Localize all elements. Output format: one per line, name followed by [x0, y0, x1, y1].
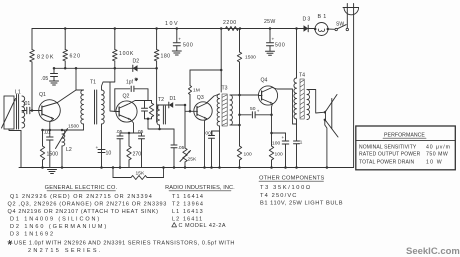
wire: Q4 collector to T4 — [272, 88, 297, 125]
svg-text:D2: D2 — [133, 59, 140, 65]
resistor 270 — [128, 133, 130, 146]
wire: T3 left bottom to .001 — [212, 126, 220, 131]
svg-text:C MODEL 42-2A: C MODEL 42-2A — [179, 223, 227, 229]
svg-text:.01: .01 — [23, 101, 30, 107]
wire: Q2 emitter down — [131, 120, 134, 134]
svg-text:1M: 1M — [193, 87, 200, 93]
wire: speaker return to rail — [325, 120, 327, 168]
svg-text:T4: T4 — [299, 73, 305, 79]
svg-text:180: 180 — [161, 54, 171, 60]
inductor L2 variable — [62, 130, 65, 146]
lamp B1 ballast bulb — [315, 23, 328, 36]
svg-text:T3 35K/100Ω: T3 35K/100Ω — [260, 185, 312, 191]
wire: top 10V supply rail — [32, 28, 297, 30]
wire: T1 primary bottom — [83, 124, 85, 130]
svg-text:PERFORMANCE: PERFORMANCE — [384, 133, 425, 139]
svg-text:T3: T3 — [222, 86, 228, 92]
svg-text:1500: 1500 — [47, 152, 59, 158]
L1 core — [16, 95, 18, 130]
svg-text:T4 250/VC: T4 250/VC — [260, 193, 298, 199]
svg-text:100: 100 — [244, 152, 252, 158]
svg-text:Q1 2N2926 (RED) OR 2N2715 OR: Q1 2N2926 (RED) OR 2N2715 OR 2N3394 — [10, 194, 153, 200]
svg-text:T2: T2 — [158, 97, 164, 103]
capacitor .1 — [296, 119, 298, 124]
svg-text:.1: .1 — [298, 140, 302, 146]
ground below first 500uF — [172, 50, 181, 52]
svg-text:500: 500 — [275, 43, 285, 49]
svg-text:500: 500 — [183, 43, 193, 49]
wire: 1M top to T3 supply — [190, 69, 221, 71]
wire: T1 secondary top jog — [102, 82, 111, 90]
svg-text:D3 1N1692: D3 1N1692 — [10, 231, 55, 237]
svg-text:Q4: Q4 — [261, 78, 268, 84]
wire: bias divider down with 100 ohm — [239, 95, 241, 146]
resistor Q2 load — [151, 101, 153, 104]
svg-text:GENERAL ELECTRIC CO.: GENERAL ELECTRIC CO. — [45, 185, 118, 191]
svg-text:620: 620 — [70, 54, 81, 60]
svg-text:SeekIC.com: SeekIC.com — [406, 246, 460, 257]
svg-text:100K: 100K — [119, 51, 134, 57]
svg-text:Q1: Q1 — [39, 92, 46, 98]
svg-text:Q2 ,Q3, 2N2926 (ORANGE) OR 2N2: Q2 ,Q3, 2N2926 (ORANGE) OR 2N2716 OR 2N3… — [8, 202, 167, 208]
wire: Q3 collector to T3 — [206, 94, 220, 104]
svg-text:T2 13964: T2 13964 — [172, 202, 204, 208]
svg-text:D3: D3 — [303, 17, 312, 23]
capacitor Q2 load — [144, 101, 146, 108]
wire: T4 secondary to speaker — [307, 90, 324, 114]
svg-text:OTHER COMPONENTS: OTHER COMPONENTS — [259, 175, 324, 181]
svg-text:D1: D1 — [170, 96, 177, 102]
svg-text:T1: T1 — [90, 80, 96, 86]
performance table — [356, 126, 456, 170]
svg-text:Q2: Q2 — [123, 94, 130, 100]
svg-text:1500: 1500 — [68, 123, 79, 129]
resistor 100 emitter — [271, 133, 273, 146]
wire: Q3 emitter down — [205, 119, 207, 168]
svg-text:+: + — [96, 146, 99, 151]
resistor 1M — [189, 70, 191, 86]
svg-text:T1 16414: T1 16414 — [172, 194, 204, 200]
diode D2 — [133, 65, 138, 71]
svg-text:L2: L2 — [66, 147, 72, 153]
T2 tuning arrow — [157, 105, 159, 112]
ground below second 500uF — [266, 50, 275, 52]
svg-text:RATED OUTPUT POWER: RATED OUTPUT POWER — [359, 152, 421, 158]
svg-text:10V: 10V — [165, 21, 179, 27]
capacitor .05 volume coupling — [173, 129, 175, 144]
svg-text:40 μv/m: 40 μv/m — [426, 144, 451, 150]
svg-text:.05: .05 — [178, 145, 185, 151]
wire: AGC line to Q1 collector and T1 — [76, 68, 84, 90]
wire: Q2 emitter node — [120, 132, 142, 134]
svg-text:100: 100 — [275, 152, 283, 158]
svg-text:+: + — [257, 108, 260, 113]
wire: Q2 collector node — [130, 101, 152, 104]
svg-text:.05: .05 — [137, 129, 144, 135]
svg-text:2N2715 SERIES.: 2N2715 SERIES. — [28, 248, 103, 254]
svg-text:.05: .05 — [116, 129, 123, 135]
potentiometer 25K volume — [184, 105, 186, 148]
wire: 100K to T1 secondary — [110, 61, 116, 112]
wire: T3 secondary to Q4 base line — [230, 94, 240, 96]
resistor 620 — [64, 29, 66, 50]
resistor 180 — [156, 29, 158, 50]
svg-text:25W: 25W — [264, 19, 276, 25]
wire: T1 secondary bottom with 10uF — [101, 124, 103, 168]
svg-text:2200: 2200 — [223, 20, 237, 26]
speaker — [324, 111, 326, 113]
svg-text:USE 1.0pf WITH 2N2926 AND 2N33: USE 1.0pf WITH 2N2926 AND 2N3391 SERIES … — [14, 241, 235, 247]
resistor 820K — [31, 29, 33, 50]
svg-text:L1: L1 — [15, 90, 21, 96]
svg-text:1500: 1500 — [245, 55, 256, 61]
switch SW — [328, 28, 335, 30]
capacitor 500uF first filter — [176, 29, 178, 43]
resistor 1500 driver feed — [239, 29, 241, 53]
L1 secondary coil — [22, 96, 25, 128]
wire: plug neutral down right side to ground rail — [353, 4, 355, 168]
resistor 100K — [114, 29, 116, 50]
svg-text:Q4 2N2196 OR 2N2107 (ATTACH TO: Q4 2N2196 OR 2N2107 (ATTACH TO HEAT SINK… — [8, 209, 159, 215]
wire: L1 bottom to ground rail — [9, 129, 21, 131]
resistor 1500 Q1 emitter — [42, 130, 44, 146]
svg-text:100: 100 — [272, 141, 280, 147]
wire: load network return — [148, 119, 174, 129]
capacitor 100uF emitter bypass — [272, 132, 286, 134]
svg-text:820K: 820K — [37, 55, 55, 61]
svg-text:D2 1N60 (GERMANIUM): D2 1N60 (GERMANIUM) — [10, 224, 108, 230]
diode D1 detector — [160, 104, 169, 106]
resistor 15K feedback below rail — [112, 168, 114, 178]
svg-text:25K: 25K — [188, 157, 197, 163]
resistor 2200 on supply rail — [226, 27, 239, 31]
wire: bottom common ground rail — [19, 167, 354, 169]
AC plug — [343, 7, 359, 9]
svg-text:+: + — [178, 38, 181, 43]
svg-text:L2 16411: L2 16411 — [172, 217, 203, 223]
svg-text:RADIO INDUSTRIES, INC.: RADIO INDUSTRIES, INC. — [165, 185, 235, 191]
wire: Q1 collector diagonal — [58, 90, 77, 103]
wire: Q1 emitter node — [43, 129, 84, 131]
svg-text:B1: B1 — [318, 14, 329, 20]
svg-text:+: + — [282, 135, 285, 140]
svg-text:.05: .05 — [41, 76, 48, 82]
svg-text:NOMINAL SENSITIVITY: NOMINAL SENSITIVITY — [359, 144, 417, 150]
svg-text:1pf: 1pf — [126, 80, 134, 86]
capacitor .05 AGC bypass — [53, 68, 55, 73]
wire: mid AGC line with D2 — [54, 67, 157, 69]
svg-text:L1 16413: L1 16413 — [172, 209, 204, 215]
diode D3 — [295, 27, 298, 30]
svg-text:15K: 15K — [136, 171, 145, 177]
svg-text:D1 1N4009 (SILICON): D1 1N4009 (SILICON) — [10, 217, 101, 223]
svg-text:B1 110V, 25W LIGHT BULB: B1 110V, 25W LIGHT BULB — [260, 200, 343, 206]
svg-text:Q3: Q3 — [197, 95, 204, 101]
wire: Q4 emitter down — [272, 104, 273, 134]
capacitor 10uF electrolytic — [98, 149, 105, 151]
wire: supply drop to T3 — [220, 29, 222, 71]
svg-text:10 W: 10 W — [426, 159, 443, 165]
wire: Q4 base node — [238, 94, 241, 97]
wire: Q1 emitter down — [50, 119, 54, 137]
capacitor 500uF second filter — [269, 29, 271, 43]
svg-text:270: 270 — [133, 152, 142, 158]
svg-text:750 MW: 750 MW — [426, 152, 448, 158]
wire: detector to Q3 base — [185, 105, 198, 111]
ground symbol on rail — [48, 169, 57, 171]
svg-text:SW: SW — [336, 22, 344, 28]
svg-text:10: 10 — [106, 151, 112, 157]
ground below .05 — [50, 80, 59, 82]
resistor 100 base — [237, 146, 241, 160]
svg-text:TOTAL POWER DRAIN: TOTAL POWER DRAIN — [359, 159, 414, 165]
